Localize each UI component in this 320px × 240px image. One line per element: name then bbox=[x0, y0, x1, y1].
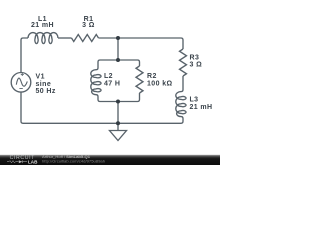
wire L3 to bottom rail bbox=[21, 92, 183, 123]
ground bbox=[110, 123, 127, 140]
svg-text:3 Ω: 3 Ω bbox=[82, 22, 95, 29]
svg-text:50 Hz: 50 Hz bbox=[36, 88, 56, 95]
resistor R3 bbox=[180, 49, 187, 76]
svg-text:R2: R2 bbox=[147, 73, 157, 80]
logo symbol line with resistor and diode bbox=[7, 160, 27, 163]
voltage source V1 circle bbox=[11, 73, 31, 93]
svg-text:L2: L2 bbox=[104, 73, 113, 80]
svg-text:LAB: LAB bbox=[28, 160, 38, 165]
svg-text:21 mH: 21 mH bbox=[31, 22, 54, 29]
wire R3 to L3 bbox=[181, 76, 183, 92]
junction node middle bottom bbox=[116, 100, 120, 104]
svg-text:V1: V1 bbox=[36, 74, 45, 81]
wire top-left vertical bbox=[21, 38, 28, 73]
inductor L2 bbox=[91, 70, 101, 95]
V1 plus sign bbox=[21, 73, 24, 76]
V1 sine symbol bbox=[16, 78, 27, 86]
svg-text:R3: R3 bbox=[190, 54, 200, 61]
inductor L1 bbox=[28, 33, 58, 44]
svg-text:3 Ω: 3 Ω bbox=[190, 62, 203, 69]
svg-text:47 H: 47 H bbox=[104, 81, 120, 88]
svg-text:sine: sine bbox=[36, 81, 52, 88]
wire top node to middle node bbox=[117, 38, 119, 60]
V1 minus sign bbox=[19, 88, 22, 90]
junction node bottom rail bbox=[116, 121, 120, 125]
junction node top bbox=[116, 36, 120, 40]
svg-text:L3: L3 bbox=[190, 97, 199, 104]
resistor R1 bbox=[72, 35, 99, 42]
logo diode triangle bbox=[19, 160, 23, 163]
svg-text:100 kΩ: 100 kΩ bbox=[147, 81, 173, 88]
inductor L3 bbox=[176, 92, 186, 117]
wire middle bracket top bbox=[96, 60, 140, 70]
wire bottom bracket to rail bbox=[117, 102, 119, 124]
wire R1 to right corner bbox=[99, 38, 184, 49]
svg-text:21 mH: 21 mH bbox=[190, 104, 213, 111]
wire L1 to R1 bbox=[58, 37, 72, 39]
wire L2 to bottom bracket bbox=[96, 93, 140, 102]
resistor R2 bbox=[136, 66, 143, 93]
svg-text:http://circuitlab.com/c4d/975u: http://circuitlab.com/c4d/975u89ah bbox=[42, 158, 105, 163]
junction node middle top bbox=[116, 58, 120, 62]
